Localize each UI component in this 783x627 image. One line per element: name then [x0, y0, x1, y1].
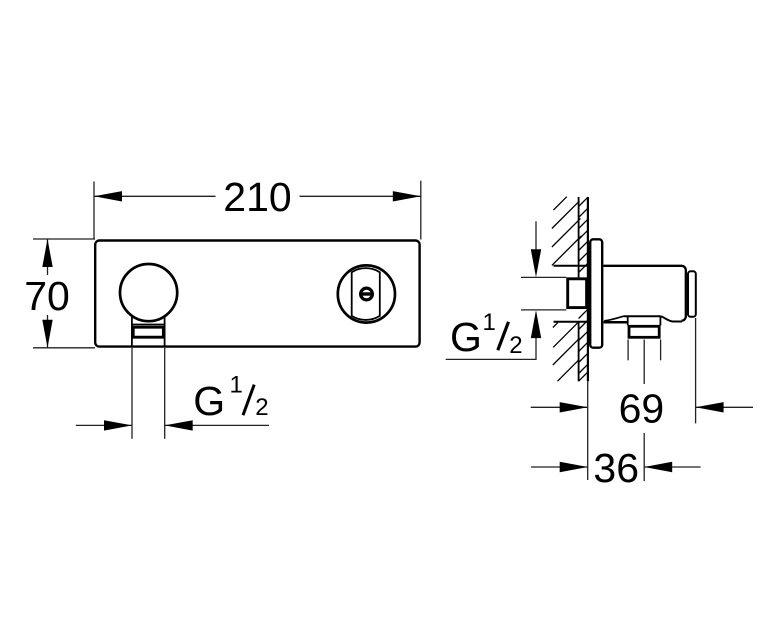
wall face line [587, 197, 589, 381]
dim 70 arrow up [42, 239, 52, 267]
dim 210 extension line right [420, 181, 422, 240]
neck shoulder line [132, 324, 165, 326]
outlet nut front [133, 327, 163, 337]
wall hatch lower boundary [554, 321, 588, 323]
dim 69 arrow left-pointing [696, 402, 724, 412]
svg-text:1: 1 [483, 309, 496, 336]
label fraction slash (left view) [243, 385, 254, 416]
outlet nipple right wall [659, 316, 661, 325]
volume knob barrel (chords + inner arcs) [352, 268, 380, 320]
inlet box extension line bottom [521, 309, 566, 311]
inlet dim arrow down [531, 249, 541, 277]
outlet nut side [629, 326, 659, 337]
dim 36 line left [531, 466, 588, 468]
dim 210 line right segment [300, 195, 421, 197]
volume knob outer circle [338, 265, 395, 322]
inlet box extension line top [521, 276, 566, 278]
dim 69 arrow right-pointing [560, 402, 588, 412]
handle neck left wall [131, 315, 133, 347]
dim 210 line left segment [94, 195, 216, 197]
wall band zigzag hatch [579, 197, 588, 381]
nipple stub extension left [627, 340, 629, 361]
svg-text:2: 2 [255, 394, 268, 421]
inlet connector box behind wall [568, 279, 587, 308]
handle circle [120, 264, 177, 321]
hose nose cap [688, 271, 696, 317]
outlet extension line left [131, 348, 133, 439]
screw head [361, 288, 373, 300]
svg-text:210: 210 [223, 174, 291, 220]
union body right edge with corners [682, 266, 686, 321]
wall face extension line down [587, 381, 589, 480]
svg-text:G: G [193, 378, 225, 424]
union body top line [603, 265, 682, 267]
svg-text:36: 36 [593, 445, 639, 491]
dim 36 arrow left-pointing [644, 462, 672, 472]
dim 70 extension line top [33, 238, 95, 240]
nipple stub extension right [660, 340, 662, 361]
dim 36 arrow right-pointing [560, 462, 588, 472]
inlet dim upper line [535, 221, 537, 250]
dim 70 line top segment [47, 239, 49, 275]
wall free hatch lines lower patch [553, 322, 579, 381]
wall inner line upper segment [578, 197, 580, 277]
svg-text:70: 70 [24, 273, 70, 319]
svg-text:69: 69 [619, 386, 665, 432]
svg-text:1: 1 [230, 372, 243, 399]
outlet dim arrow left-pointing [165, 420, 193, 430]
outlet extension line right [164, 348, 166, 439]
union body dip curve to bottom [660, 316, 682, 321]
union body bottom chin curve [604, 316, 623, 321]
screw slot [360, 292, 374, 295]
union body bottom back line [604, 321, 628, 324]
outlet dim line right [165, 424, 269, 426]
wall inner line lower segment [578, 322, 580, 382]
wall hatch upper boundary [554, 265, 588, 267]
label fraction slash (right view) [498, 322, 509, 350]
escutcheon flange (side) [590, 239, 602, 347]
dim 69 line left [531, 406, 588, 408]
dim 70 arrow down [42, 320, 52, 348]
dim 70 line bottom segment [47, 315, 49, 348]
dim 210 arrow left [94, 191, 122, 201]
inlet dim arrow up [531, 310, 541, 338]
dim 36 line right [644, 466, 700, 468]
dim 70 extension line bottom [33, 347, 95, 349]
outlet nipple left wall [627, 316, 629, 325]
inlet dim lower line + leader [446, 338, 536, 359]
nipple axis extension upper [643, 340, 645, 385]
outlet dim arrow right-pointing [104, 420, 132, 430]
outlet dim line left [76, 424, 132, 426]
wall plate front view [95, 241, 419, 347]
dim 210 extension line left [93, 182, 95, 240]
handle neck right wall [164, 315, 166, 347]
svg-text:2: 2 [509, 332, 522, 359]
nipple axis extension lower [643, 433, 645, 481]
union body saddle plateau [624, 315, 661, 317]
dim 69 line right [696, 406, 753, 408]
dim 210 arrow right [393, 191, 421, 201]
wall free hatch lines upper patch [552, 197, 582, 266]
svg-text:G: G [450, 314, 482, 360]
nose extension line down [695, 318, 697, 423]
